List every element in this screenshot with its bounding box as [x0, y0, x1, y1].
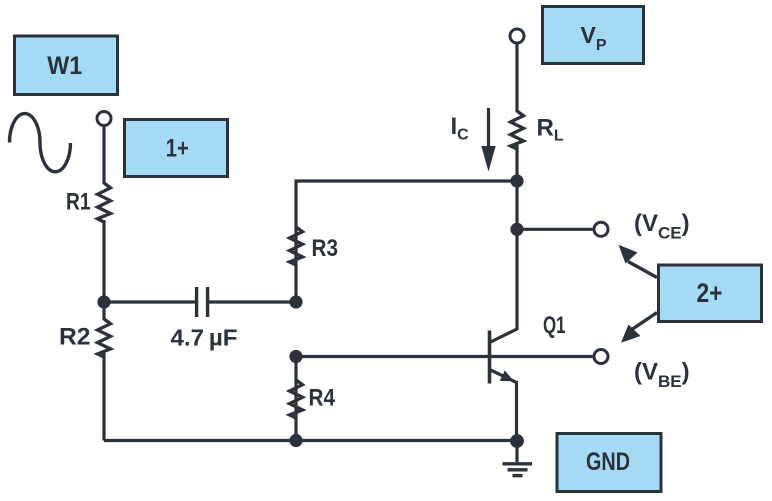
resistor RL	[511, 111, 524, 149]
svg-text:R1: R1	[66, 189, 91, 216]
svg-text:2+: 2+	[697, 278, 723, 308]
arrow from 2+ box to VBE terminal	[621, 313, 657, 343]
svg-text:W1: W1	[47, 52, 82, 80]
node: VCE tap junction	[510, 223, 523, 236]
arrow from 2+ box to VCE terminal	[619, 245, 658, 278]
wire: W1 terminal down to R1	[102, 127, 105, 184]
callout box 1+	[125, 120, 228, 177]
sine wave source symbol	[10, 114, 71, 172]
resistor R1	[98, 183, 111, 222]
callout box GND	[557, 434, 661, 492]
node: collector/RL junction	[510, 174, 523, 187]
callout box 2+	[659, 265, 762, 322]
wire: divider node down through R4 to ground rail	[294, 357, 297, 441]
node: R1/R2/cap junction	[97, 295, 110, 308]
node: cap/R3 junction	[289, 295, 302, 308]
wire: bottom ground rail	[104, 439, 517, 442]
capacitor C1 4.7uF plates	[197, 287, 208, 317]
node: emitter/ground junction	[510, 434, 524, 448]
resistor R2	[98, 319, 111, 357]
callout box VP	[543, 7, 644, 64]
transistor Q1	[490, 329, 518, 384]
svg-text:1+: 1+	[166, 135, 189, 163]
svg-text:4.7 µF: 4.7 µF	[171, 325, 238, 351]
wire: capacitor right plate to divider node	[209, 300, 296, 303]
svg-text:Q1: Q1	[543, 312, 566, 339]
wire: input node to capacitor left plate	[102, 300, 195, 303]
node: R4 bottom rail junction	[289, 434, 302, 447]
IC current arrow	[481, 108, 495, 172]
terminal: VBE sense	[594, 350, 608, 364]
terminal: VP supply	[510, 29, 524, 43]
svg-text:R3: R3	[312, 235, 339, 262]
resistor R4	[290, 380, 303, 418]
wire: RL bottom to collector node and down to transistor	[515, 145, 518, 330]
node: R4/base junction	[289, 350, 302, 363]
callout box W1	[15, 36, 118, 95]
terminal: VCE sense	[594, 222, 608, 236]
wire: emitter down to ground node	[515, 381, 518, 441]
ground	[503, 441, 533, 476]
svg-text:R2: R2	[59, 324, 91, 351]
wire: R1 to input node	[102, 220, 105, 320]
terminal: W1 output	[97, 112, 111, 126]
wire: R2 bottom to ground rail	[102, 353, 105, 441]
svg-text:GND: GND	[586, 448, 630, 476]
wire: VP terminal down to RL	[515, 44, 518, 112]
wire: VCE tap to terminal	[517, 228, 593, 231]
wire: base line from divider node to VBE terminal	[296, 355, 593, 358]
wire: R3 vertical run and top rail to collector	[296, 181, 517, 302]
resistor R3	[290, 227, 303, 265]
svg-text:R4: R4	[309, 385, 336, 412]
